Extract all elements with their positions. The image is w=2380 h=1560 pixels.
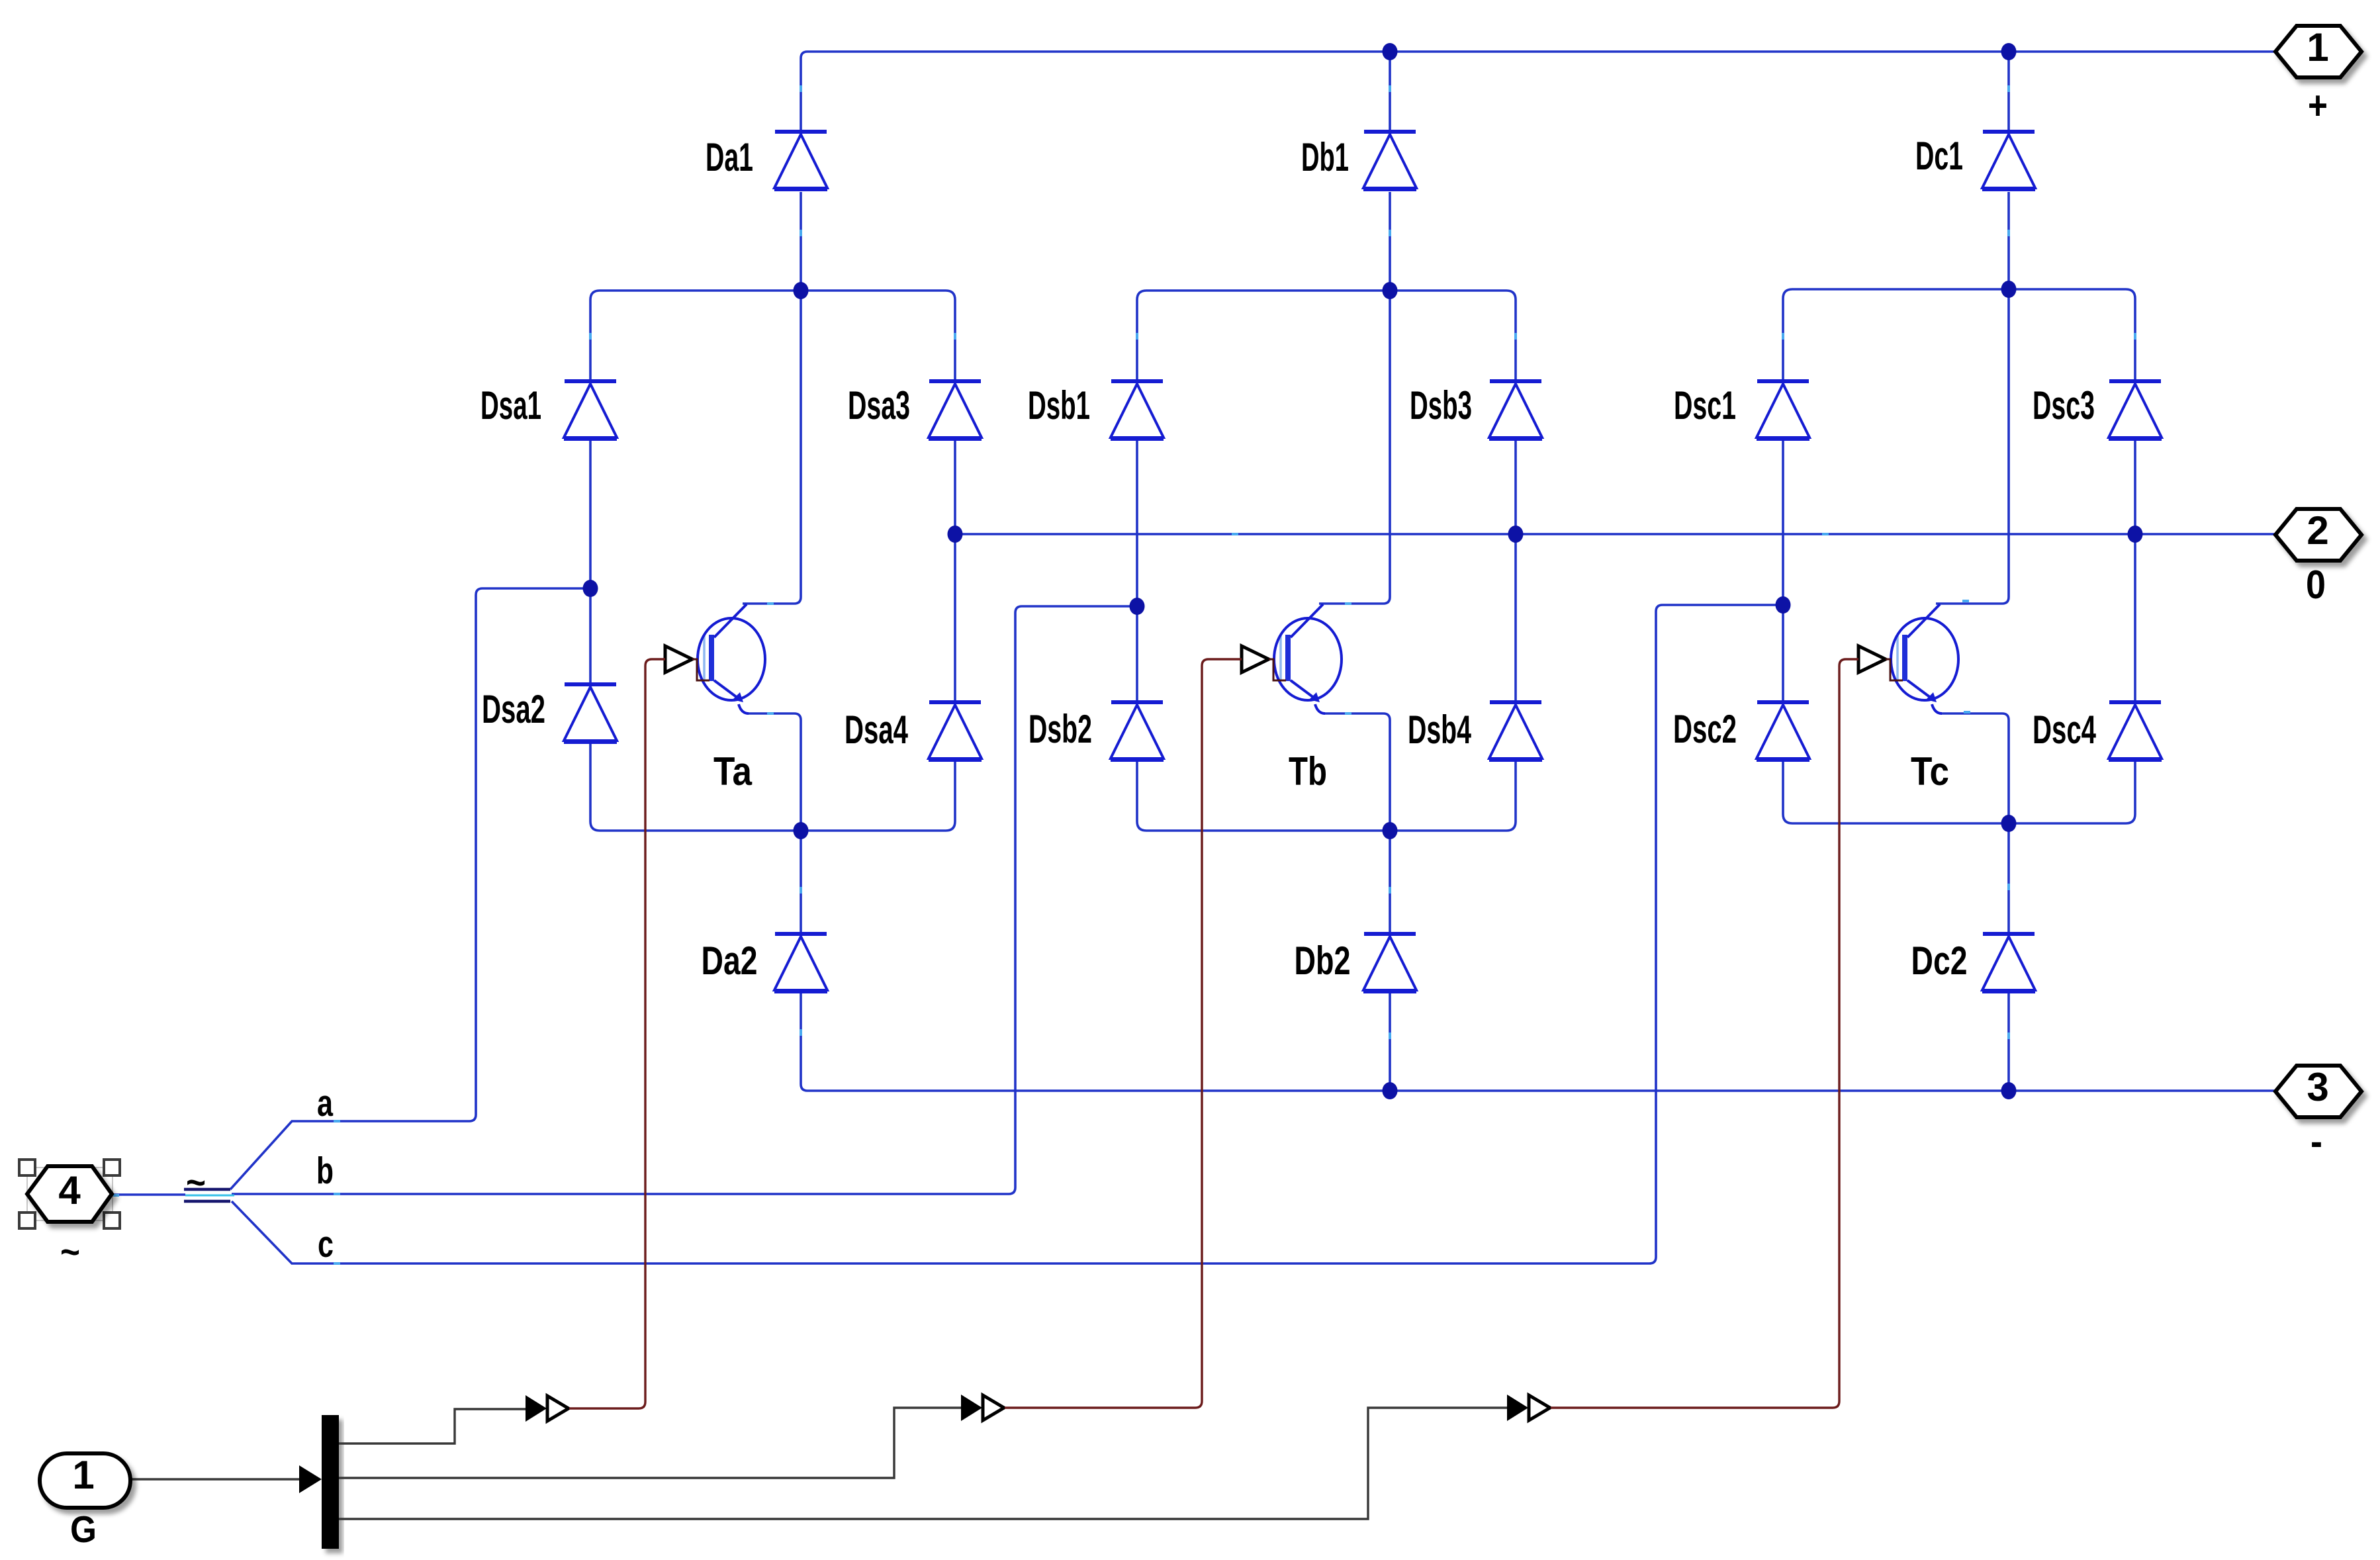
node phase b join bbox=[1130, 598, 1145, 615]
svg-text:1: 1 bbox=[72, 1453, 94, 1497]
wire tick 0bus m2 bbox=[1822, 533, 1829, 535]
svg-text:~: ~ bbox=[186, 1162, 206, 1204]
wire bridge-b right mid bbox=[1514, 441, 1517, 700]
diode Dsc3 bbox=[2109, 381, 2162, 439]
wire tick brc L bbox=[1782, 333, 1784, 340]
diode Db2 bbox=[1363, 934, 1416, 991]
wire tick brb R bbox=[1514, 333, 1517, 340]
wire tick Dc1 top bbox=[2007, 85, 2010, 92]
wire bridge-c to Dc2 bbox=[2007, 823, 2010, 932]
wire tick Db1 top bbox=[1389, 85, 1391, 92]
three-phase splitter bbox=[184, 1189, 234, 1201]
wire bridge-b to Db2 bbox=[1389, 831, 1391, 932]
wire tick Da1 bot bbox=[800, 230, 802, 236]
node 0 bus / Dsc3-4 bbox=[2128, 526, 2143, 543]
wire tick port4 join bbox=[113, 1194, 119, 1197]
wire tick a wire bbox=[334, 1120, 340, 1123]
gate arrow Tb bbox=[1242, 646, 1269, 672]
diode Dc1 bbox=[1982, 132, 2035, 189]
port 4 bbox=[27, 1166, 112, 1222]
wire gate a bbox=[569, 659, 665, 1408]
wire demux out3 bbox=[339, 1408, 1507, 1519]
gate arrow Tc bbox=[1858, 646, 1886, 672]
wire tick bra R bbox=[954, 333, 956, 340]
wire tick Dc1 bot bbox=[2007, 230, 2010, 236]
svg-text:G: G bbox=[70, 1508, 97, 1551]
gate step wire Ta bbox=[692, 659, 709, 680]
node 0 bus / Dsb3-4 bbox=[1508, 526, 1524, 543]
gate arrow Ta bbox=[665, 646, 692, 672]
wire tick b wire bbox=[334, 1193, 340, 1195]
svg-text:a: a bbox=[317, 1082, 334, 1124]
svg-text:Dsc3: Dsc3 bbox=[2033, 383, 2095, 428]
gate driver 1 bbox=[526, 1395, 569, 1422]
wire Db1 to bus bbox=[1389, 52, 1391, 130]
wire bridge-a to Da2 bbox=[800, 831, 802, 932]
wire tick Da2 bot bbox=[800, 1029, 802, 1036]
wire phase a bbox=[230, 588, 590, 1189]
diode Dsc1 bbox=[1757, 381, 1809, 439]
diode Db1 bbox=[1363, 132, 1416, 189]
wire middle 0 bus bbox=[955, 533, 2275, 535]
svg-text:3: 3 bbox=[2307, 1065, 2328, 1109]
transistor Tb bbox=[1274, 291, 1390, 831]
wire gate c bbox=[1551, 659, 1858, 1408]
svg-text:0: 0 bbox=[2306, 563, 2326, 607]
wire bridge-c top bbox=[1783, 289, 2135, 381]
wire bridge-a top bbox=[590, 291, 955, 381]
gate feed wire Ta bbox=[644, 1407, 646, 1409]
svg-text:Dsa2: Dsa2 bbox=[482, 687, 545, 731]
wire phase b bbox=[232, 606, 1137, 1194]
wire Dc1 to bus bbox=[2007, 52, 2010, 130]
wire phase c bbox=[232, 605, 1783, 1263]
diode Dc2 bbox=[1982, 934, 2035, 991]
wire gate b bbox=[1005, 659, 1242, 1408]
svg-text:1: 1 bbox=[2307, 25, 2328, 69]
svg-text:Tc: Tc bbox=[1911, 749, 1949, 794]
node bus+ / Db1 bbox=[1383, 43, 1398, 60]
diode Dsa4 bbox=[929, 702, 982, 760]
svg-text:Dsb2: Dsb2 bbox=[1029, 707, 1092, 751]
wire tick Dc2 top bbox=[2007, 884, 2010, 890]
gate feed wire Tb bbox=[1202, 1407, 1204, 1409]
svg-text:~: ~ bbox=[60, 1231, 80, 1273]
wire tick c wire bbox=[334, 1262, 340, 1265]
svg-text:2: 2 bbox=[2307, 508, 2328, 553]
wire tick Db2 top bbox=[1389, 887, 1391, 894]
wire Db2 to - bus bbox=[1389, 993, 1391, 1091]
wire tick Ta col bbox=[767, 602, 774, 605]
transistor Tc bbox=[1891, 289, 2009, 823]
gate feed wire Tc bbox=[1839, 1407, 1841, 1409]
wire tick Tb em bbox=[1345, 712, 1351, 715]
svg-text:Dsa1: Dsa1 bbox=[481, 383, 541, 428]
svg-text:b: b bbox=[316, 1150, 334, 1192]
node bus+ / Dc1 bbox=[2001, 43, 2017, 60]
wire bridge-b top bbox=[1137, 291, 1516, 381]
wire Da1 anode to bus bbox=[800, 58, 802, 130]
svg-text:Dsb4: Dsb4 bbox=[1408, 708, 1471, 752]
wire Dc2 to - bus bbox=[2007, 993, 2010, 1091]
wire Da2 to - bus bbox=[801, 993, 807, 1091]
svg-text:Dsa4: Dsa4 bbox=[845, 708, 908, 752]
node bridge-a bottom bbox=[794, 822, 809, 839]
svg-text:Tb: Tb bbox=[1289, 749, 1327, 794]
diode Dsb1 bbox=[1111, 381, 1164, 439]
svg-text:Dsc1: Dsc1 bbox=[1674, 383, 1736, 428]
wire tick Tb col bbox=[1345, 602, 1351, 605]
node - bus / Dc2 bbox=[2001, 1082, 2017, 1099]
svg-text:Db1: Db1 bbox=[1301, 135, 1349, 179]
svg-text:c: c bbox=[318, 1223, 334, 1265]
wire Dc1 to bridge-c node bbox=[2007, 192, 2010, 289]
wire tick brb L bbox=[1136, 333, 1138, 340]
gate step wire Tc bbox=[1886, 659, 1903, 680]
port 1 (+) bbox=[2275, 26, 2361, 77]
node phase a join bbox=[583, 580, 598, 597]
transistor Ta bbox=[698, 291, 801, 831]
svg-text:+: + bbox=[2308, 83, 2328, 128]
wire tick bra L bbox=[589, 333, 592, 340]
svg-text:Dc1: Dc1 bbox=[1915, 134, 1963, 178]
node bridge-a top bbox=[794, 282, 809, 299]
diode Dsc4 bbox=[2109, 702, 2162, 760]
wire bridge-b left mid bbox=[1136, 441, 1138, 700]
node bridge-c top bbox=[2001, 281, 2017, 298]
port 4 selection handles bbox=[19, 1160, 120, 1228]
wire tick Dc2 bot bbox=[2007, 1032, 2010, 1039]
gate driver 3 bbox=[1507, 1395, 1550, 1421]
wire tick Da1 top bbox=[800, 85, 802, 92]
wire tick Tc col bbox=[1962, 600, 1969, 602]
diode Da2 bbox=[774, 934, 827, 991]
wire bottom - bus bbox=[807, 1089, 2275, 1092]
svg-text:Dsc4: Dsc4 bbox=[2033, 708, 2096, 752]
node bridge-b bottom bbox=[1383, 822, 1398, 839]
wire G to demux bbox=[130, 1478, 299, 1480]
wire tick Ta em bbox=[767, 712, 774, 715]
diode Dsc2 bbox=[1757, 702, 1809, 760]
wire Db1 to bridge-b node bbox=[1389, 192, 1391, 291]
wire tick Da2 top bbox=[800, 887, 802, 894]
svg-text:Dsb1: Dsb1 bbox=[1028, 383, 1090, 428]
diode Dsb2 bbox=[1111, 702, 1164, 760]
svg-text:Ta: Ta bbox=[713, 749, 753, 794]
wire demux out2 bbox=[339, 1408, 961, 1478]
diode Dsa1 bbox=[564, 381, 617, 439]
wire Da1 to bridge-a node bbox=[800, 192, 802, 291]
wire demux out1 bbox=[339, 1409, 526, 1444]
node phase c join bbox=[1776, 596, 1791, 614]
port 3 (-) bbox=[2275, 1066, 2361, 1117]
gate step wire Tb bbox=[1269, 659, 1286, 680]
wire tick Tc em bbox=[1964, 711, 1970, 713]
svg-text:Dc2: Dc2 bbox=[1911, 939, 1968, 983]
svg-text:4: 4 bbox=[58, 1168, 81, 1213]
wire bridge-c right mid bbox=[2134, 441, 2136, 700]
wire bridge-a left mid bbox=[589, 441, 592, 682]
diode Dsa2 bbox=[564, 684, 617, 742]
svg-text:Da1: Da1 bbox=[706, 135, 753, 179]
svg-text:Dsc2: Dsc2 bbox=[1673, 707, 1737, 751]
wire bridge-c left mid bbox=[1782, 441, 1784, 700]
wire tick brc R bbox=[2134, 333, 2136, 340]
wire port4 stub bbox=[112, 1193, 185, 1196]
svg-text:Dsb3: Dsb3 bbox=[1410, 383, 1472, 428]
wire top + bus bbox=[801, 52, 2275, 58]
wire tick Db1 bot bbox=[1389, 230, 1391, 236]
wire bridge-b bottom bbox=[1137, 762, 1516, 831]
svg-text:Db2: Db2 bbox=[1295, 939, 1351, 983]
svg-text:-: - bbox=[2311, 1119, 2322, 1164]
port 1 G oval bbox=[40, 1453, 130, 1508]
diode Dsb3 bbox=[1489, 381, 1542, 439]
svg-text:Dsa3: Dsa3 bbox=[848, 383, 910, 428]
wire tick Db2 bot bbox=[1389, 1032, 1391, 1039]
node - bus / Db2 bbox=[1383, 1082, 1398, 1099]
diode Da1 bbox=[774, 132, 827, 189]
node 0 bus / Dsa3-4 bbox=[948, 526, 963, 543]
wire bridge-a bottom bbox=[590, 744, 955, 831]
demux input arrow bbox=[299, 1465, 322, 1493]
gate driver 2 bbox=[961, 1395, 1004, 1421]
wire bridge-c bottom bbox=[1783, 762, 2135, 823]
diode Dsa3 bbox=[929, 381, 982, 439]
node bridge-b top bbox=[1383, 282, 1398, 299]
diode Dsb4 bbox=[1489, 702, 1542, 760]
port 2 (0) bbox=[2275, 509, 2361, 561]
demux bbox=[322, 1415, 339, 1549]
node bridge-c bottom bbox=[2001, 815, 2017, 832]
wire tick 0bus m1 bbox=[1232, 533, 1238, 535]
wire bridge-a right mid bbox=[954, 441, 956, 700]
svg-text:Da2: Da2 bbox=[702, 939, 758, 983]
